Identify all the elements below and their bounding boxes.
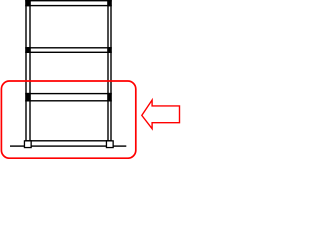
floor1 joint mark right: [107, 93, 111, 102]
ground line: [10, 145, 126, 146]
right footing square: [106, 141, 113, 148]
floor1 beam bottom line: [25, 100, 111, 101]
base slab line: [25, 140, 111, 141]
red highlight rounded rectangle: [1, 81, 135, 158]
roof beam top line: [25, 0, 111, 1]
left column inner line: [29, 0, 30, 141]
floor2 joint mark left: [25, 47, 30, 53]
floor2 joint mark right: [107, 47, 111, 53]
floor2 beam bottom line: [25, 52, 111, 53]
right column outer line: [110, 0, 111, 141]
roof joint mark left: [25, 0, 30, 6]
floor1 joint mark left: [25, 93, 30, 102]
roof beam bottom line: [25, 5, 111, 6]
floor1 beam top line: [25, 93, 111, 94]
right column inner line: [107, 0, 108, 141]
roof joint mark right: [107, 0, 111, 6]
red block arrow pointing left: [142, 100, 180, 129]
left column outer line: [25, 0, 26, 141]
left footing square: [24, 141, 31, 148]
floor2 beam top line: [25, 47, 111, 48]
